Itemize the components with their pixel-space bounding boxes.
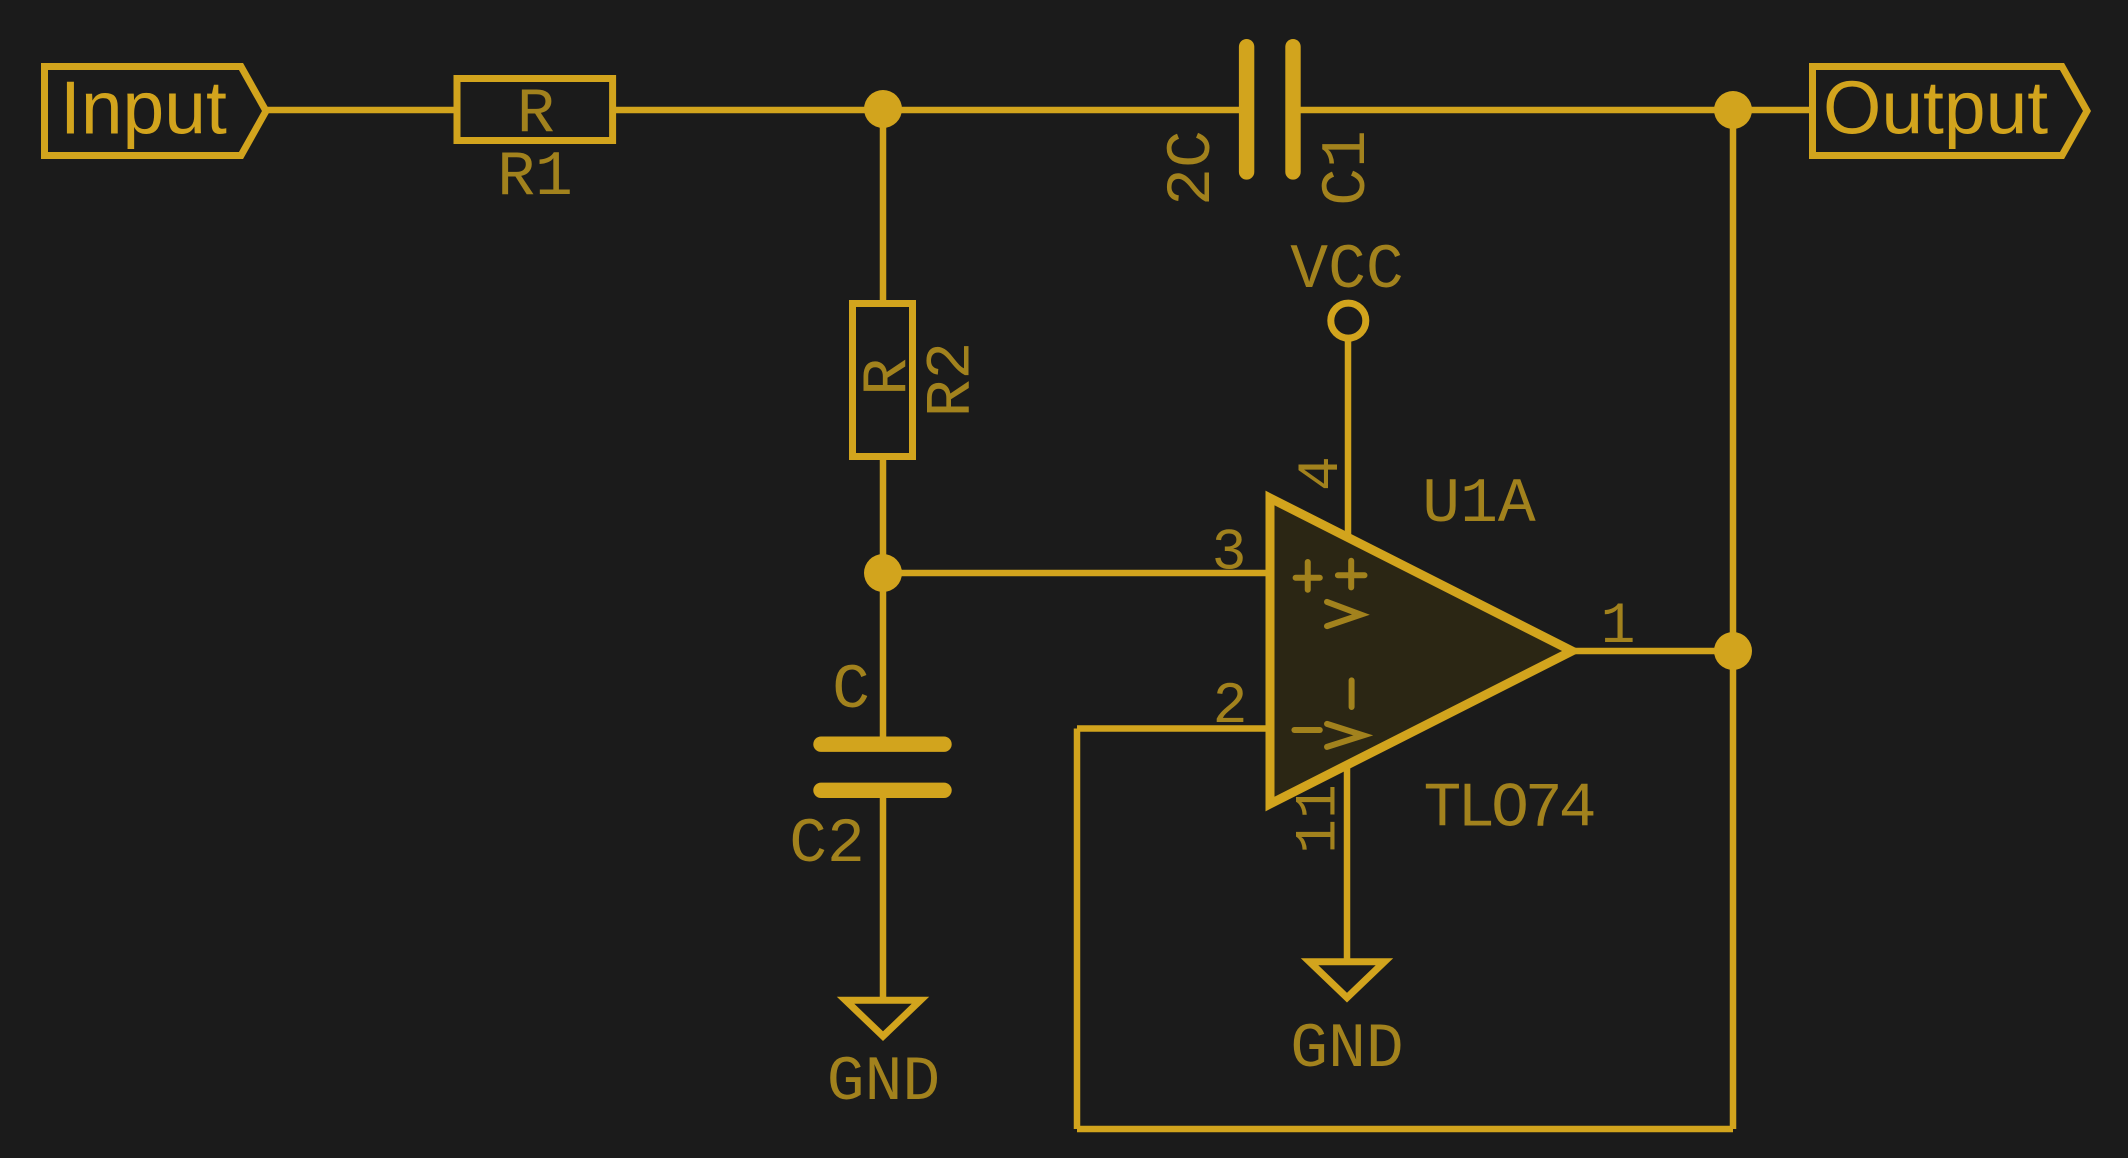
resistor R1 (457, 79, 613, 214)
junction node B (864, 554, 902, 592)
wire R2 to node B (880, 457, 887, 573)
wire feedback left vertical (1074, 729, 1081, 1130)
svg-text:U1A: U1A (1422, 469, 1536, 540)
wire node B to pin 3 (883, 570, 1272, 577)
junction node pin1 (1714, 632, 1752, 670)
wire feedback bottom (1077, 1126, 1733, 1133)
svg-text:GND: GND (1290, 1014, 1403, 1085)
wire feedback right vertical (1730, 651, 1737, 1129)
V+ label (1327, 561, 1365, 626)
wire node to Output label (1733, 107, 1809, 114)
svg-text:R1: R1 (497, 142, 573, 213)
svg-text:2C: 2C (1157, 130, 1228, 206)
svg-text:C2: C2 (789, 809, 865, 880)
capacitor C2 (789, 655, 944, 880)
svg-text:R: R (853, 358, 924, 396)
svg-text:R2: R2 (917, 342, 988, 418)
wire C1 right to output node (1293, 107, 1733, 114)
junction node A (864, 90, 902, 128)
global label Input (45, 66, 267, 156)
resistor R2 (853, 304, 988, 457)
svg-text:C1: C1 (1312, 130, 1383, 206)
svg-text:GND: GND (827, 1047, 940, 1118)
svg-text:TLO74: TLO74 (1423, 774, 1593, 845)
wire node down to R2 (880, 110, 887, 303)
svg-text:3: 3 (1212, 522, 1247, 587)
global label Output (1813, 66, 2088, 156)
svg-text:1: 1 (1601, 595, 1636, 660)
wire node B down to C2 (880, 573, 887, 737)
svg-text:4: 4 (1290, 456, 1355, 491)
op-amp U1A (1212, 456, 1636, 854)
junction node out top (1714, 91, 1752, 129)
pin 2 name - (1294, 727, 1319, 733)
capacitor C1 (1157, 47, 1383, 206)
wire pin 2 horizontal (1077, 725, 1272, 732)
wire VCC to pin 4 (1345, 340, 1352, 537)
svg-text:2: 2 (1213, 675, 1248, 740)
wire output node vertical (1730, 110, 1737, 651)
ground GND2 (1290, 962, 1403, 1085)
wire pin 1 to node (1572, 648, 1733, 655)
svg-text:Input: Input (60, 66, 227, 150)
wire C2 to GND (880, 798, 887, 1000)
ground GND1 (827, 1000, 940, 1118)
V- label (1327, 680, 1363, 747)
wire Input to R1 (266, 107, 457, 114)
wire pin 11 to GND (1344, 766, 1351, 961)
pin 3 name + (1296, 562, 1320, 590)
power symbol VCC (1290, 235, 1403, 338)
svg-text:R: R (517, 79, 555, 150)
svg-text:C: C (832, 655, 870, 726)
svg-text:11: 11 (1288, 784, 1353, 854)
svg-text:VCC: VCC (1290, 235, 1403, 306)
svg-text:Output: Output (1823, 66, 2048, 150)
wire R1 to C1 left (through node) (613, 107, 1239, 114)
